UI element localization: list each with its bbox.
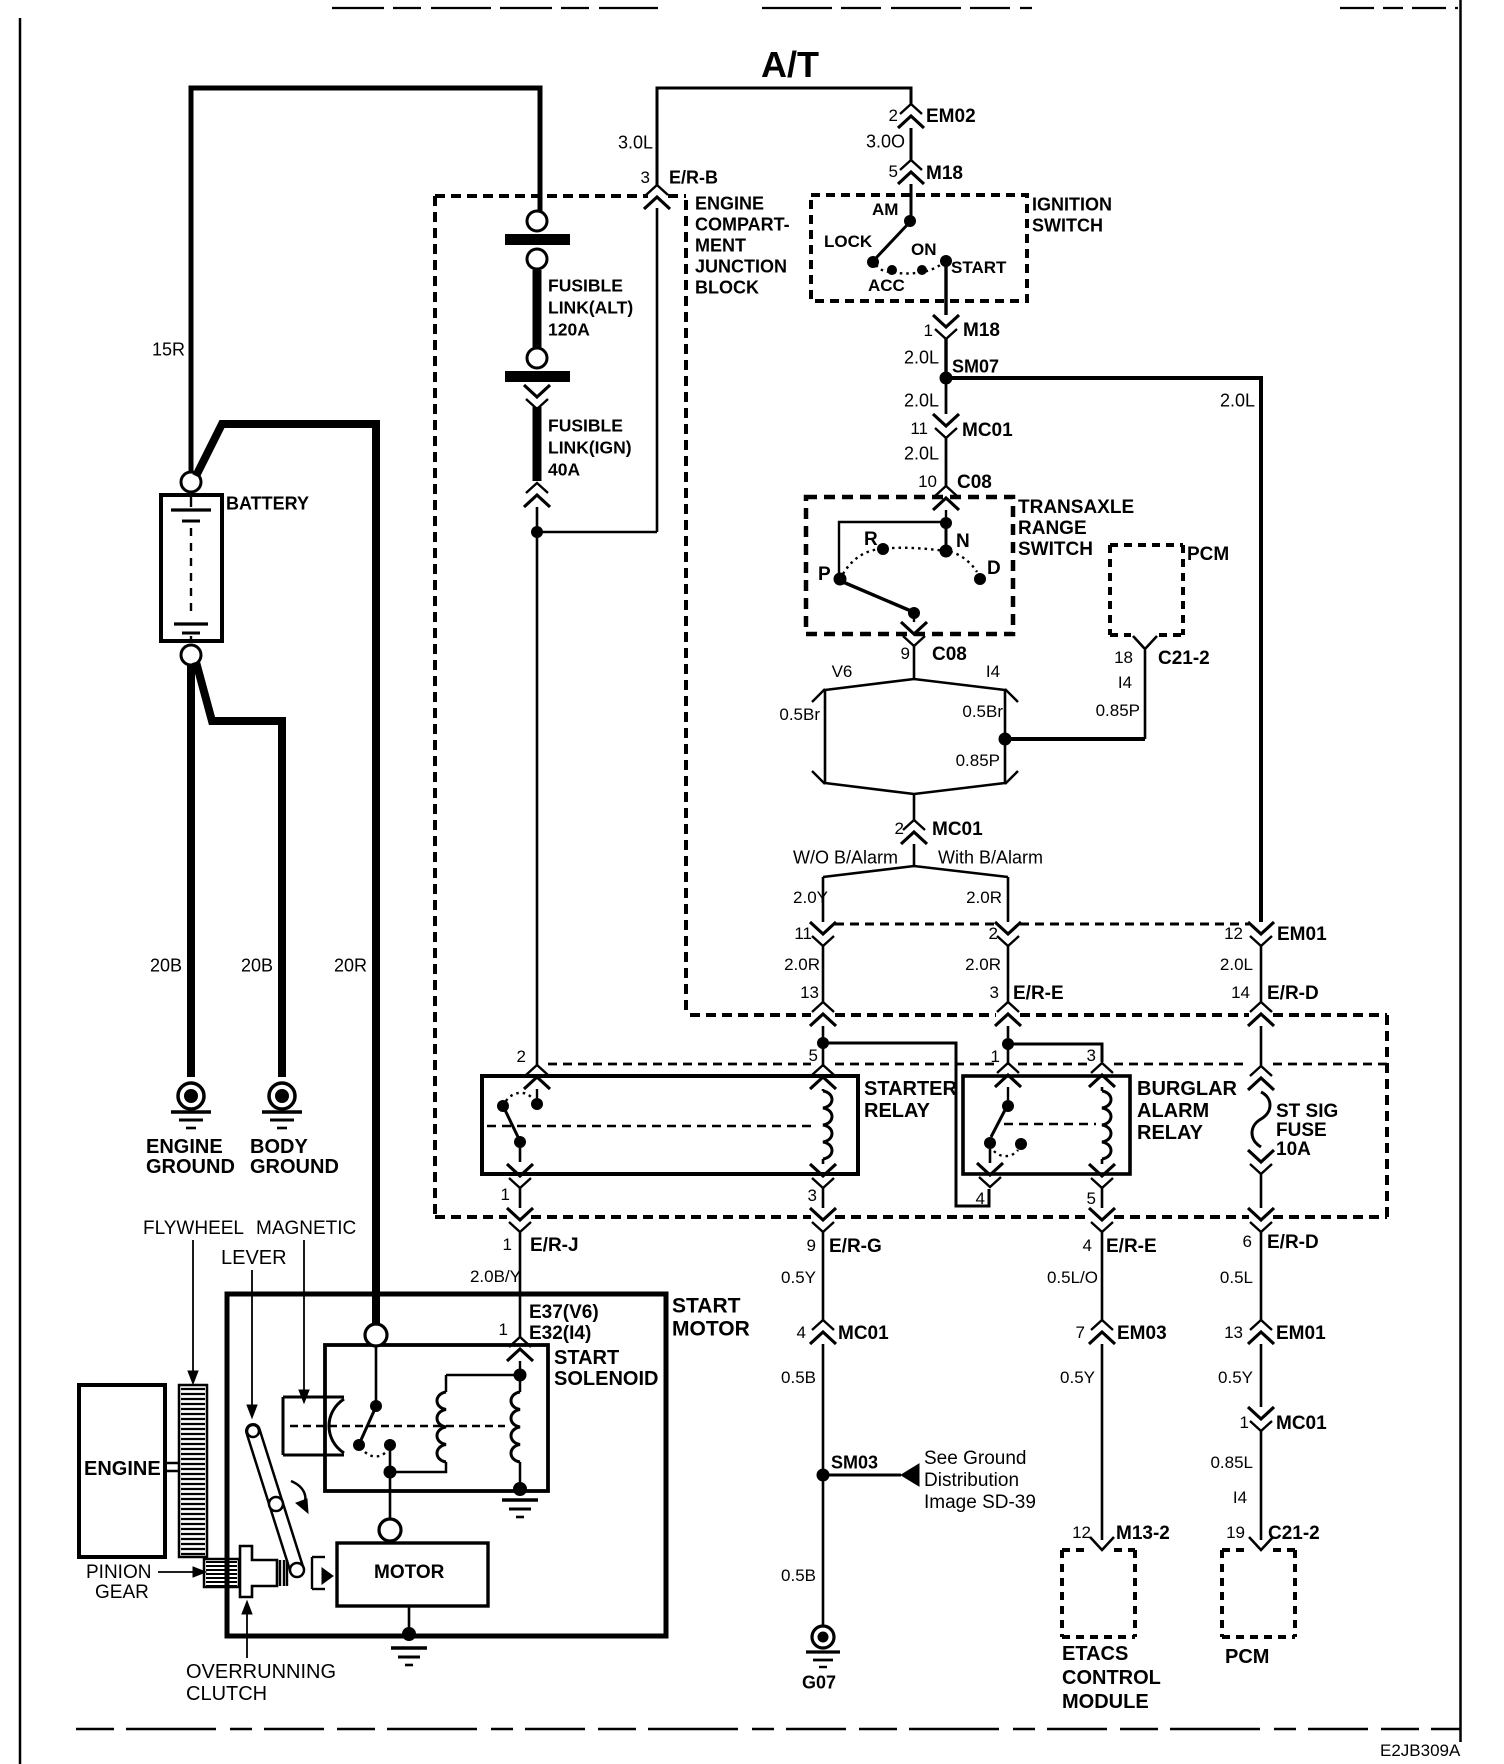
starter relay switch output contact bbox=[514, 1136, 526, 1148]
ground G07 symbol bbox=[812, 1626, 834, 1648]
svg-text:11: 11 bbox=[910, 419, 928, 438]
svg-text:P: P bbox=[818, 564, 831, 585]
svg-text:FUSIBLE: FUSIBLE bbox=[548, 415, 623, 435]
svg-text:I4: I4 bbox=[1233, 1488, 1247, 1507]
svg-text:11: 11 bbox=[794, 924, 812, 943]
svg-text:20B: 20B bbox=[241, 956, 273, 976]
svg-text:3: 3 bbox=[641, 168, 650, 187]
svg-text:With B/Alarm: With B/Alarm bbox=[938, 848, 1043, 868]
connector MC01 pin 2 bbox=[901, 820, 927, 844]
wire to P terminal bbox=[839, 522, 946, 574]
page border left bbox=[19, 18, 22, 1764]
lever arm bbox=[253, 1431, 297, 1570]
svg-text:40A: 40A bbox=[548, 459, 580, 479]
starter relay pin 2 connector bbox=[524, 1065, 550, 1089]
wire split W/O vs With B/Alarm bbox=[823, 866, 1008, 877]
svg-text:1: 1 bbox=[499, 1320, 508, 1339]
connector EM01 row (dashed) bbox=[835, 923, 996, 926]
wire fuse output bbox=[1260, 1174, 1263, 1208]
svg-text:2.0R: 2.0R bbox=[966, 888, 1002, 907]
node solenoid coil feed bbox=[514, 1369, 527, 1382]
pinion gear bbox=[204, 1559, 239, 1587]
ignition switch arm AM-LOCK bbox=[876, 224, 908, 258]
svg-text:START: START bbox=[672, 1295, 741, 1318]
wire pin3 E/R-E to relay node bbox=[1007, 1026, 1010, 1038]
svg-text:0.5B: 0.5B bbox=[781, 1368, 816, 1387]
svg-text:C08: C08 bbox=[932, 644, 967, 665]
svg-text:PCM: PCM bbox=[1225, 1646, 1269, 1668]
svg-text:MC01: MC01 bbox=[962, 420, 1013, 441]
svg-text:3: 3 bbox=[1087, 1046, 1096, 1065]
svg-text:E/R-G: E/R-G bbox=[829, 1236, 882, 1257]
wire 0.5Y down to ETACS bbox=[1101, 1344, 1104, 1540]
ignition switch terminal AM bbox=[904, 215, 916, 227]
wire tap to E/R-B pin 3 bbox=[537, 531, 657, 534]
wire pin13 to starter relay node bbox=[822, 1026, 825, 1038]
svg-text:20R: 20R bbox=[334, 956, 367, 976]
svg-text:GROUND: GROUND bbox=[146, 1156, 235, 1178]
svg-text:0.5Br: 0.5Br bbox=[962, 702, 1003, 721]
ignition switch terminal LOCK bbox=[867, 256, 879, 268]
svg-text:4: 4 bbox=[1083, 1236, 1092, 1255]
fusible link ALT terminal circle upper bbox=[527, 211, 547, 231]
svg-text:GEAR: GEAR bbox=[95, 1582, 149, 1603]
svg-text:M18: M18 bbox=[963, 320, 1000, 341]
svg-text:ON: ON bbox=[911, 240, 937, 259]
transaxle switch wiper P to output bbox=[843, 582, 911, 611]
node junction burglar relay feed bbox=[1002, 1038, 1014, 1050]
svg-text:ENGINE: ENGINE bbox=[695, 194, 764, 214]
svg-text:BURGLAR: BURGLAR bbox=[1137, 1078, 1238, 1100]
wire 2.0B/Y E/R-J to solenoid bbox=[519, 1232, 522, 1338]
connector MC01 pin 4 bbox=[810, 1320, 836, 1344]
svg-text:D: D bbox=[987, 558, 1001, 579]
flywheel pointer arrow bbox=[192, 1240, 194, 1372]
svg-text:2: 2 bbox=[989, 924, 998, 943]
solenoid internal dashed plunger link bbox=[290, 1425, 505, 1428]
burglar relay pin 3 connector bbox=[1089, 1063, 1115, 1087]
svg-text:IGNITION: IGNITION bbox=[1032, 195, 1112, 215]
connector EM01 pin 12 bbox=[1248, 922, 1274, 946]
battery internal dashed cell line bbox=[190, 528, 192, 615]
node junction starter relay pin 5 bbox=[817, 1037, 829, 1049]
burglar relay switch fixed contact bbox=[1007, 1087, 1009, 1100]
solenoid switch input bbox=[375, 1346, 378, 1401]
svg-text:LOCK: LOCK bbox=[824, 232, 873, 251]
svg-text:I4: I4 bbox=[986, 662, 1000, 681]
transaxle range switch boundary (dashed) bbox=[806, 497, 1013, 634]
svg-text:N: N bbox=[956, 531, 970, 552]
wire 0.5B to G07 bbox=[822, 1481, 825, 1625]
svg-text:M13-2: M13-2 bbox=[1116, 1523, 1170, 1544]
starter relay switch arm bbox=[497, 1100, 509, 1112]
wire pin1 into solenoid bbox=[519, 1361, 521, 1370]
wire pin3 stub bbox=[822, 1188, 825, 1208]
transaxle switch terminal D bbox=[974, 573, 986, 585]
burglar relay pin 4 exit connector bbox=[977, 1163, 1003, 1187]
wire 20B battery negative to engine ground bbox=[187, 665, 195, 1077]
wire pin5 stub bbox=[1101, 1188, 1104, 1208]
svg-text:2.0L: 2.0L bbox=[1220, 955, 1253, 974]
connector M18 pin 1 bbox=[933, 315, 959, 339]
svg-text:EM01: EM01 bbox=[1277, 924, 1327, 945]
svg-text:1: 1 bbox=[991, 1047, 1000, 1066]
svg-text:0.85P: 0.85P bbox=[956, 751, 1000, 770]
fuse F3 ST SIG FUSE 10A bbox=[1252, 1092, 1270, 1147]
svg-text:4: 4 bbox=[976, 1189, 985, 1208]
node junction I4 branch to PCM bbox=[999, 733, 1012, 746]
burglar alarm relay K2 box bbox=[963, 1076, 1130, 1174]
lever middle circle bbox=[269, 1497, 283, 1511]
svg-text:E/R-D: E/R-D bbox=[1267, 1232, 1319, 1253]
ST SIG fuse top connector bbox=[1248, 1066, 1274, 1090]
svg-text:LINK(IGN): LINK(IGN) bbox=[548, 437, 632, 457]
wire 2.0R to pin 3 bbox=[1007, 946, 1010, 1002]
node switch output / coil junction bbox=[384, 1466, 397, 1479]
burglar relay pin 5 exit connector bbox=[1089, 1164, 1115, 1188]
node wiper output bbox=[908, 607, 920, 619]
svg-text:C21-2: C21-2 bbox=[1158, 648, 1210, 669]
svg-text:12: 12 bbox=[1072, 1523, 1091, 1542]
node SM07 splice bbox=[940, 372, 953, 385]
svg-text:E2JB309A: E2JB309A bbox=[1380, 1741, 1461, 1760]
svg-text:ST SIG: ST SIG bbox=[1276, 1101, 1338, 1122]
svg-text:OVERRUNNING: OVERRUNNING bbox=[186, 1661, 336, 1683]
wire 0.5Y down bbox=[1260, 1344, 1263, 1407]
burglar relay switch arm bbox=[991, 1110, 1005, 1137]
clutch pointer arrow bbox=[246, 1613, 248, 1658]
PCM module boundary (dashed, top) bbox=[1110, 543, 1183, 547]
svg-text:EM01: EM01 bbox=[1276, 1323, 1326, 1344]
connector M13-2 pin 12 at ETACS bbox=[1090, 1537, 1114, 1550]
svg-text:5: 5 bbox=[809, 1046, 818, 1065]
svg-text:2.0L: 2.0L bbox=[904, 348, 939, 368]
battery cable terminal circle at solenoid bbox=[365, 1324, 387, 1346]
burglar relay internal dashed link bbox=[1004, 1123, 1096, 1126]
motor terminal circle bbox=[379, 1519, 401, 1541]
svg-text:0.5Y: 0.5Y bbox=[781, 1268, 816, 1287]
svg-text:BODY: BODY bbox=[250, 1136, 308, 1158]
svg-text:5: 5 bbox=[889, 162, 898, 181]
wire 2.0L to pin 14 bbox=[1260, 946, 1263, 1002]
ignition switch terminal START bbox=[940, 255, 952, 267]
clutch output shaft coupling bbox=[311, 1557, 313, 1589]
svg-text:BLOCK: BLOCK bbox=[695, 278, 759, 298]
svg-text:CONTROL: CONTROL bbox=[1062, 1667, 1161, 1689]
ETACS control module boundary (dashed) bbox=[1062, 1548, 1090, 1552]
svg-text:12: 12 bbox=[1224, 924, 1243, 943]
ignition switch rotation arc (dotted) bbox=[876, 263, 943, 274]
svg-text:E/R-E: E/R-E bbox=[1106, 1236, 1157, 1257]
connector C08 pin 9 bbox=[901, 622, 927, 646]
connector C08 pin 10 bbox=[933, 486, 959, 510]
svg-text:FUSIBLE: FUSIBLE bbox=[548, 275, 623, 295]
svg-text:ALARM: ALARM bbox=[1137, 1100, 1209, 1122]
svg-text:2.0R: 2.0R bbox=[784, 955, 820, 974]
PCM module boundary (dashed, bottom) bbox=[1222, 1548, 1249, 1552]
wire START output bbox=[944, 261, 947, 315]
svg-text:EM02: EM02 bbox=[926, 106, 976, 127]
connector MC01 pin 1 bbox=[1248, 1407, 1274, 1431]
connector EM01 pin 11 bbox=[810, 922, 836, 946]
wire hold-in coil bottom to ground bbox=[519, 1462, 522, 1484]
svg-text:RANGE: RANGE bbox=[1018, 518, 1087, 539]
burglar relay coil bbox=[1101, 1087, 1104, 1091]
svg-text:Image SD-39: Image SD-39 bbox=[924, 1492, 1036, 1513]
transaxle switch terminal P bbox=[834, 573, 847, 586]
svg-text:MOTOR: MOTOR bbox=[672, 1318, 750, 1341]
svg-text:W/O B/Alarm: W/O B/Alarm bbox=[793, 848, 898, 868]
svg-text:E/R-E: E/R-E bbox=[1013, 983, 1064, 1004]
svg-text:120A: 120A bbox=[548, 319, 590, 339]
svg-text:STARTER: STARTER bbox=[864, 1078, 958, 1100]
svg-text:PCM: PCM bbox=[1187, 544, 1229, 565]
svg-text:RELAY: RELAY bbox=[1137, 1122, 1204, 1144]
wire switch output to motor bbox=[389, 1478, 392, 1519]
svg-text:SM07: SM07 bbox=[952, 357, 999, 377]
wire 2.0L MC01 to C08 bbox=[945, 438, 948, 486]
svg-text:0.5L/O: 0.5L/O bbox=[1047, 1268, 1098, 1287]
lever rotation arrow bbox=[291, 1481, 305, 1508]
svg-text:0.5Br: 0.5Br bbox=[779, 705, 820, 724]
wire C08 pin10 into switch bbox=[945, 510, 947, 517]
wire 3.0O segment bbox=[910, 128, 913, 160]
wire split merge bottom bbox=[825, 783, 1005, 794]
svg-text:ACC: ACC bbox=[868, 276, 905, 295]
svg-text:COMPART-: COMPART- bbox=[695, 215, 790, 235]
svg-text:4: 4 bbox=[797, 1323, 806, 1342]
svg-text:TRANSAXLE: TRANSAXLE bbox=[1018, 497, 1134, 518]
junction block internal socket row (dashed) bbox=[548, 1063, 811, 1066]
overrunning clutch body bbox=[240, 1546, 277, 1597]
svg-text:ENGINE: ENGINE bbox=[84, 1458, 161, 1480]
svg-text:See Ground: See Ground bbox=[924, 1448, 1026, 1469]
connector EM02 pin 2 bbox=[898, 104, 924, 128]
ST SIG fuse bottom connector bbox=[1248, 1150, 1274, 1174]
connector chevron below bus bar bbox=[524, 385, 550, 409]
svg-text:3: 3 bbox=[990, 983, 999, 1002]
svg-text:15R: 15R bbox=[152, 340, 185, 360]
svg-text:0.85P: 0.85P bbox=[1096, 701, 1140, 720]
svg-text:9: 9 bbox=[901, 644, 910, 663]
svg-text:6: 6 bbox=[1243, 1232, 1252, 1251]
svg-text:2: 2 bbox=[517, 1047, 526, 1066]
svg-text:2.0L: 2.0L bbox=[1220, 391, 1255, 411]
svg-text:0.5Y: 0.5Y bbox=[1218, 1368, 1253, 1387]
svg-text:I4: I4 bbox=[1118, 673, 1132, 692]
svg-text:MENT: MENT bbox=[695, 236, 746, 256]
fusible link IGN bus bar bbox=[505, 371, 570, 382]
fusible link F1 FUSIBLE LINK(ALT) 120A bbox=[533, 270, 542, 349]
svg-text:E/R-D: E/R-D bbox=[1267, 983, 1319, 1004]
svg-text:1: 1 bbox=[503, 1235, 512, 1254]
start motor M1 box bbox=[227, 1294, 666, 1636]
wire 2.0Y (W/O B/Alarm) bbox=[822, 877, 825, 922]
wire M18 pin5 to ignition switch AM bbox=[910, 184, 913, 221]
battery B1 bottom terminal circle bbox=[181, 645, 201, 665]
wire 2.0L SM07 to right branch bbox=[946, 378, 1261, 922]
connector E/R-J pin 1 at block edge bbox=[507, 1208, 533, 1232]
wire 20R battery positive to start motor bbox=[196, 424, 376, 476]
svg-text:13: 13 bbox=[800, 983, 819, 1002]
page border top (broken) bbox=[332, 7, 658, 9]
svg-text:0.5B: 0.5B bbox=[781, 1566, 816, 1585]
lever end circle bbox=[290, 1563, 304, 1577]
wire fusible link output bbox=[536, 507, 539, 1066]
svg-text:G07: G07 bbox=[802, 1673, 836, 1693]
svg-text:CLUTCH: CLUTCH bbox=[186, 1683, 267, 1705]
solenoid switch output contact bbox=[384, 1439, 396, 1451]
starter relay pin 1 exit connector bbox=[507, 1164, 533, 1188]
svg-text:2.0L: 2.0L bbox=[904, 444, 939, 464]
svg-text:JUNCTION: JUNCTION bbox=[695, 257, 787, 277]
wire N stub bbox=[945, 523, 948, 545]
transaxle switch terminal R bbox=[877, 543, 889, 555]
ground distribution reference arrow bbox=[823, 1474, 901, 1477]
svg-text:Distribution: Distribution bbox=[924, 1470, 1019, 1491]
fusible link F2 FUSIBLE LINK(IGN) 40A bbox=[533, 407, 542, 481]
svg-text:5: 5 bbox=[1087, 1189, 1096, 1208]
wire 2.0R to E/R-J block pin 13 bbox=[822, 946, 825, 1002]
svg-text:14: 14 bbox=[1231, 983, 1250, 1002]
svg-text:9: 9 bbox=[807, 1236, 816, 1255]
connector MC01 pin 11 bbox=[933, 414, 959, 438]
svg-text:0.5Y: 0.5Y bbox=[1060, 1368, 1095, 1387]
svg-text:SOLENOID: SOLENOID bbox=[554, 1368, 658, 1390]
fusible link IGN terminal circle bbox=[527, 348, 547, 368]
starter relay armature throw (dotted) bbox=[506, 1093, 531, 1101]
wire 0.85P to PCM pin 18 bbox=[1005, 737, 1145, 741]
svg-text:3.0L: 3.0L bbox=[618, 133, 653, 153]
starter relay internal dashed link bbox=[487, 1125, 816, 1128]
wire pull-in coil bottom bbox=[395, 1462, 446, 1472]
wire 0.5B down to SM03 bbox=[822, 1344, 825, 1470]
svg-text:2: 2 bbox=[895, 819, 904, 838]
svg-text:MC01: MC01 bbox=[1276, 1413, 1327, 1434]
svg-text:2.0B/Y: 2.0B/Y bbox=[470, 1267, 521, 1286]
svg-text:19: 19 bbox=[1226, 1523, 1245, 1542]
connector C21-2 pin 18 at PCM bbox=[1133, 636, 1157, 649]
connector EM03 pin 7 bbox=[1089, 1320, 1115, 1344]
wire 0.5Y E/R-G down bbox=[822, 1232, 825, 1320]
svg-text:SWITCH: SWITCH bbox=[1032, 216, 1103, 236]
fusible link ALT upper bus bar bbox=[505, 234, 570, 245]
motor M box bbox=[337, 1543, 488, 1606]
connector E/R-E pin 4 at block edge bbox=[1089, 1208, 1115, 1232]
burglar relay pin 1 connector bbox=[995, 1063, 1021, 1087]
node junction at N bbox=[940, 517, 952, 529]
svg-text:0.5L: 0.5L bbox=[1220, 1268, 1253, 1287]
svg-text:10A: 10A bbox=[1276, 1139, 1311, 1160]
svg-text:2: 2 bbox=[889, 106, 898, 125]
wire 0.5L/O E/R-E down bbox=[1101, 1232, 1104, 1320]
connector M18 pin 5 bbox=[898, 160, 924, 184]
wire coil tops bbox=[446, 1374, 520, 1377]
engine box bbox=[79, 1385, 165, 1557]
node SM03 splice bbox=[817, 1469, 830, 1482]
solenoid pull-in coil bbox=[437, 1392, 446, 1462]
fusible link ALT terminal circle lower bbox=[527, 249, 547, 269]
page border right bbox=[1459, 0, 1462, 1742]
svg-text:SWITCH: SWITCH bbox=[1018, 539, 1093, 560]
solenoid ground symbol bbox=[502, 1498, 538, 1501]
svg-text:SM03: SM03 bbox=[831, 1453, 878, 1473]
starter relay pin 3 exit connector bbox=[810, 1164, 836, 1188]
svg-text:1: 1 bbox=[924, 321, 933, 340]
junction block connector pin 14 E/R-D bbox=[1248, 1002, 1274, 1026]
battery B1 top terminal circle bbox=[181, 472, 201, 492]
wire C08 pin 9 down to split bbox=[913, 646, 916, 680]
svg-text:C08: C08 bbox=[957, 472, 992, 493]
ignition switch terminal ON bbox=[917, 265, 927, 275]
burglar relay switch output to pin 4 bbox=[989, 1149, 992, 1163]
connector E/R-B pin 3 bbox=[644, 185, 670, 209]
svg-text:13: 13 bbox=[1224, 1323, 1243, 1342]
wire wiper output down bbox=[913, 618, 915, 622]
svg-text:LINK(ALT): LINK(ALT) bbox=[548, 297, 633, 317]
wire 2.0L to SM07 bbox=[944, 339, 947, 372]
wire 2.0L SM07 down bbox=[945, 378, 948, 414]
lever pointer arrow bbox=[251, 1270, 253, 1406]
solenoid plunger fork bbox=[282, 1397, 285, 1455]
burglar relay armature throw (dotted) bbox=[994, 1150, 1018, 1156]
wire pin1 stub bbox=[519, 1188, 522, 1208]
svg-text:3.0O: 3.0O bbox=[866, 132, 905, 152]
svg-text:AM: AM bbox=[872, 200, 898, 219]
wire MC01 pin2 down to alarm split bbox=[913, 844, 916, 866]
starter relay pin 5 connector bbox=[810, 1065, 836, 1089]
svg-text:GROUND: GROUND bbox=[250, 1156, 339, 1178]
connector chevron below fusible link IGN bbox=[524, 483, 550, 507]
engine compartment junction block boundary (dashed) bbox=[435, 194, 648, 198]
wire 0.85L down to PCM bbox=[1260, 1431, 1263, 1540]
wire 2.0L pin14 down to fuse bbox=[1260, 1026, 1263, 1066]
wire motor to ground bbox=[408, 1606, 411, 1628]
wire node to burglar relay pin 4 bbox=[823, 1043, 989, 1206]
svg-text:RELAY: RELAY bbox=[864, 1100, 931, 1122]
svg-text:A/T: A/T bbox=[761, 44, 819, 85]
svg-text:7: 7 bbox=[1076, 1323, 1085, 1342]
wire 15R battery positive feed bbox=[191, 88, 540, 471]
svg-text:1: 1 bbox=[501, 1185, 510, 1204]
wire A/T link E/R-B to EM02 bbox=[657, 88, 911, 185]
engine to flywheel coupling bbox=[165, 1462, 179, 1465]
svg-text:M18: M18 bbox=[926, 163, 963, 184]
battery B1 bbox=[161, 495, 222, 641]
pinion pointer arrow bbox=[158, 1571, 194, 1573]
svg-text:START: START bbox=[951, 258, 1007, 277]
svg-text:LEVER: LEVER bbox=[221, 1247, 287, 1269]
svg-text:MC01: MC01 bbox=[838, 1323, 889, 1344]
svg-text:START: START bbox=[554, 1347, 619, 1369]
start solenoid box bbox=[325, 1345, 548, 1491]
svg-text:3: 3 bbox=[808, 1186, 817, 1205]
starter relay K1 box bbox=[482, 1076, 858, 1174]
wire node to burglar relay pin 3 coil bbox=[1008, 1044, 1102, 1062]
connector E/R-D pin 6 at block edge bbox=[1248, 1208, 1274, 1232]
junction block connector pin 3 E/R-E bbox=[995, 1002, 1021, 1026]
node junction fusible output / E/R-B tap bbox=[531, 526, 543, 538]
starter relay switch fixed contact bbox=[536, 1089, 538, 1099]
svg-text:E37(V6): E37(V6) bbox=[529, 1302, 599, 1323]
svg-text:PINION: PINION bbox=[86, 1562, 151, 1583]
junction block connector pin 13 bbox=[810, 1002, 836, 1026]
wire split V6/I4 branch top bbox=[825, 679, 1005, 690]
svg-text:2.0R: 2.0R bbox=[965, 955, 1001, 974]
ignition switch terminal ACC bbox=[887, 265, 897, 275]
svg-text:18: 18 bbox=[1114, 648, 1133, 667]
svg-text:V6: V6 bbox=[832, 662, 853, 681]
